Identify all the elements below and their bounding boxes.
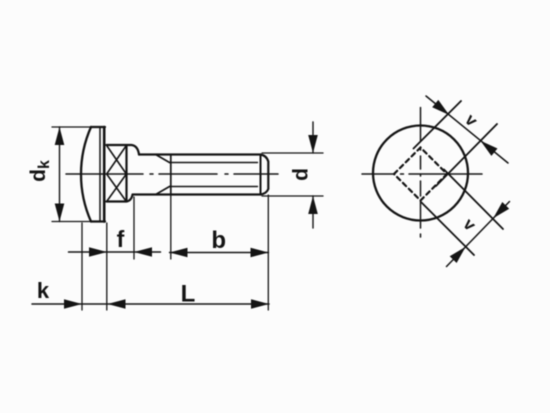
extension line from thread start xyxy=(170,195,172,260)
thread runout diagonal bottom xyxy=(157,187,170,195)
lower v arrowhead at line D xyxy=(493,202,509,218)
bolt head top edge xyxy=(91,126,105,128)
dimension k and L shared line xyxy=(32,303,269,305)
dimension f line with outside arrows xyxy=(69,251,161,253)
shank and thread major diameter bottom line xyxy=(133,193,261,195)
bolt head inner face line xyxy=(99,128,101,221)
svg-text:L: L xyxy=(181,281,196,308)
thread end vertical line xyxy=(260,155,262,195)
extension line from bolt end xyxy=(267,195,269,310)
dimension f arrowhead right xyxy=(89,247,107,257)
bolt tip rounded end cap xyxy=(261,155,269,195)
dimension b line xyxy=(170,252,269,254)
thread start vertical line xyxy=(170,155,172,195)
centerline of bolt axis xyxy=(66,173,278,175)
svg-text:b: b xyxy=(211,227,226,254)
bolt head dome outline xyxy=(81,127,91,222)
upper v dimension line xyxy=(426,96,508,163)
label d xyxy=(290,168,313,181)
svg-text:v: v xyxy=(459,215,480,236)
label v lower xyxy=(459,215,480,236)
dimension dk arrowhead down xyxy=(55,204,65,222)
dimension L arrowhead left xyxy=(108,299,126,309)
extension line A through top corner xyxy=(414,101,462,149)
front view vertical centerline xyxy=(420,108,422,238)
dimension b arrowhead right xyxy=(251,248,269,258)
extension line B through right corner xyxy=(436,124,497,186)
extension line D through right corner lower xyxy=(444,170,503,230)
dimension d arrow tails xyxy=(312,122,314,228)
thread runout diagonal top xyxy=(157,155,170,163)
dimension dk extension line bottom xyxy=(52,221,105,223)
extension line C through bottom corner xyxy=(421,202,474,255)
svg-text:d: d xyxy=(290,168,313,181)
dimension d extension line top xyxy=(262,152,323,154)
front view horizontal centerline xyxy=(362,173,482,175)
svg-text:dk: dk xyxy=(27,160,53,182)
dimension d arrowhead up xyxy=(308,196,318,214)
shank and thread major diameter top line xyxy=(139,153,261,155)
dimension dk extension line top xyxy=(52,126,105,128)
dimension L arrowhead right xyxy=(251,299,269,309)
bolt head bottom edge xyxy=(91,220,105,222)
lower v arrowhead at line C xyxy=(450,247,466,263)
thread minor diameter top line xyxy=(170,162,258,164)
dimension f arrowhead left xyxy=(134,247,152,257)
dimension d extension line bottom xyxy=(262,195,323,197)
dimension dk arrowhead up xyxy=(55,127,65,145)
label v upper xyxy=(461,110,482,131)
upper v arrowhead at line B xyxy=(481,141,498,156)
lower v dimension line xyxy=(447,202,510,267)
hidden square neck (dashed diamond) xyxy=(394,148,447,201)
svg-text:f: f xyxy=(117,226,125,252)
front view head circle xyxy=(373,126,468,221)
thread minor diameter bottom line xyxy=(170,186,258,188)
dimension k arrowhead xyxy=(64,299,82,309)
square neck cross marking upper X xyxy=(107,146,126,174)
label dk xyxy=(27,160,53,182)
square neck cross marking lower X xyxy=(107,175,126,202)
extension line from head dome apex xyxy=(81,223,83,310)
extension line from neck end xyxy=(133,197,135,259)
upper v arrowhead at line A xyxy=(432,100,449,115)
dimension b arrowhead left xyxy=(170,248,188,258)
bolt head bearing face xyxy=(103,127,106,222)
extension line from head bearing face xyxy=(106,223,108,310)
square neck outline xyxy=(107,145,140,202)
dimension dk line xyxy=(59,127,61,222)
dimension d arrowhead down xyxy=(308,135,318,153)
svg-text:k: k xyxy=(37,278,50,303)
